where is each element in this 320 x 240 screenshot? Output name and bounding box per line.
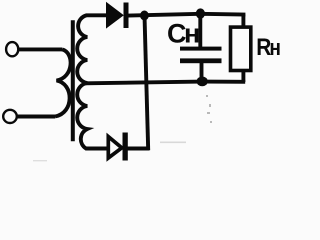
svg-text:Rн: Rн	[256, 34, 281, 61]
svg-text:Cн: Cн	[167, 19, 200, 49]
